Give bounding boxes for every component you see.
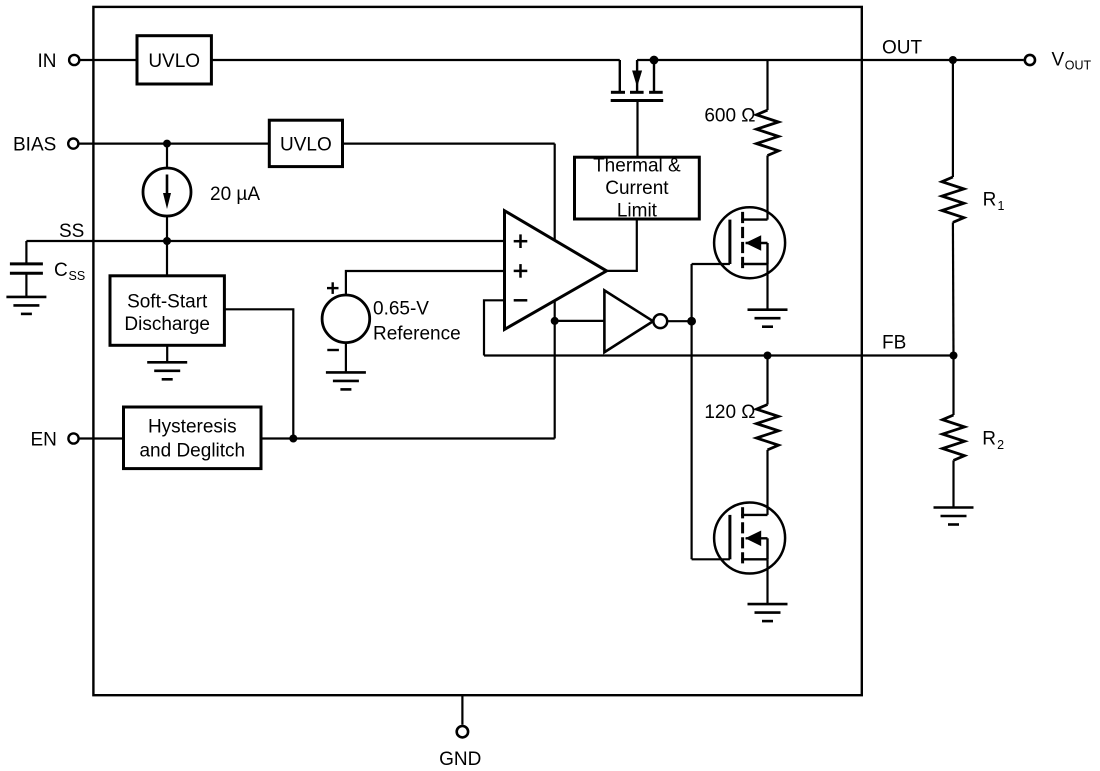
pin label VOUT xyxy=(1052,50,1092,73)
svg-text:FB: FB xyxy=(882,332,906,353)
current source I1 20uA xyxy=(143,144,191,241)
wire FB to 120 ohm resistor xyxy=(766,356,768,405)
wire UVLO U1 output to pass transistor drain xyxy=(211,59,619,61)
wire soft-start box to enable net xyxy=(224,309,293,438)
wire OUT rail xyxy=(637,59,1023,61)
resistor R1 xyxy=(942,177,964,222)
wire error amp inverting input to FB xyxy=(484,300,505,355)
svg-text:Thermal &: Thermal & xyxy=(593,156,681,177)
wire gate node vertical xyxy=(690,264,692,559)
node inverter output junction xyxy=(687,317,696,326)
svg-text:Soft-Start: Soft-Start xyxy=(127,292,208,313)
pin VOUT terminal circle xyxy=(1025,55,1035,65)
resistor 600 ohm xyxy=(757,110,779,155)
svg-text:Discharge: Discharge xyxy=(124,314,210,335)
ground under reference xyxy=(326,372,366,389)
ground under soft-start box xyxy=(147,362,187,379)
block Hysteresis and Deglitch xyxy=(124,407,262,469)
voltage reference source VREF 0.65V xyxy=(322,271,504,372)
wire IN pin to UVLO U1 xyxy=(79,59,137,61)
svg-text:GND: GND xyxy=(439,749,481,770)
svg-text:OUT: OUT xyxy=(882,37,923,58)
block Thermal & Current Limit xyxy=(575,156,700,222)
wire hysteresis output to enable net xyxy=(261,437,555,439)
block UVLO U1 (IN rail) xyxy=(137,36,211,84)
label R1 xyxy=(983,189,1005,213)
node FB to divider xyxy=(950,352,958,360)
resistor R2 xyxy=(943,415,965,460)
wire 600 ohm to discharge transistor Q2 drain xyxy=(766,156,768,220)
node BIAS junction xyxy=(163,140,171,148)
wire GND stub xyxy=(461,695,463,725)
inverter U4 input wire xyxy=(555,320,605,322)
wire BIAS pin to UVLO U2 xyxy=(78,143,269,145)
svg-text:120 Ω: 120 Ω xyxy=(704,402,755,423)
wire enable net vertical (runs behind error amp) xyxy=(554,144,556,439)
node pass transistor source to OUT xyxy=(650,56,659,65)
label R2 xyxy=(982,428,1004,452)
svg-text:C: C xyxy=(54,260,68,281)
wire R2 to ground xyxy=(952,460,954,507)
pass transistor Q1 gate lead xyxy=(636,101,638,158)
wire Q2 source to ground xyxy=(766,264,768,310)
wire 120 ohm to discharge transistor Q3 drain xyxy=(766,450,768,515)
ground under CSS xyxy=(6,297,46,314)
wire soft-start box to ground xyxy=(166,345,168,362)
ground under Q2 xyxy=(748,310,788,327)
pass transistor Q1 xyxy=(611,60,664,101)
wire Q3 source to ground xyxy=(766,559,768,604)
wire UVLO U2 output to enable net xyxy=(343,143,555,145)
node OUT divider junction xyxy=(949,56,957,64)
svg-text:BIAS: BIAS xyxy=(13,135,56,156)
node EN net junction xyxy=(289,435,297,443)
svg-text:Hysteresis: Hysteresis xyxy=(148,416,237,437)
pin IN terminal circle xyxy=(69,55,79,65)
wire Q3 gate to inverter node xyxy=(692,558,730,560)
inverter U4 xyxy=(604,290,667,352)
wire SS to external capacitor xyxy=(25,241,27,264)
node inverter input tap xyxy=(551,317,559,325)
svg-text:UVLO: UVLO xyxy=(148,51,200,72)
transistor Q2 (OUT discharge NMOS) xyxy=(714,207,785,278)
pin EN terminal circle xyxy=(68,433,78,443)
svg-text:Limit: Limit xyxy=(617,201,658,222)
svg-text:600 Ω: 600 Ω xyxy=(704,106,755,127)
capacitor CSS xyxy=(10,264,43,297)
wire FB rail xyxy=(484,354,954,356)
svg-text:V: V xyxy=(1052,50,1065,71)
svg-text:2: 2 xyxy=(997,438,1004,452)
svg-text:EN: EN xyxy=(31,429,57,450)
wire error amp output to thermal limit block xyxy=(607,219,637,271)
wire FB node to R2 xyxy=(952,356,954,416)
svg-text:and Deglitch: and Deglitch xyxy=(139,440,245,461)
ground under R2 xyxy=(934,508,974,525)
svg-text:OUT: OUT xyxy=(1065,59,1092,73)
resistor 120 ohm xyxy=(757,405,779,450)
svg-text:SS: SS xyxy=(59,221,84,242)
wire R1 to FB node xyxy=(952,222,955,355)
svg-text:20 µA: 20 µA xyxy=(210,184,260,205)
node SS junction xyxy=(163,237,171,245)
outer IC boundary box xyxy=(93,7,861,695)
transistor Q3 (FB discharge NMOS) xyxy=(714,503,785,574)
wire Q2 gate to inverter node xyxy=(692,263,730,265)
pin GND terminal circle xyxy=(457,726,468,737)
svg-text:SS: SS xyxy=(69,269,86,283)
op-amp error amplifier U3 xyxy=(505,211,607,330)
wire VOUT node to R1 xyxy=(952,60,954,177)
wire OUT to 600 ohm resistor xyxy=(766,60,768,110)
label 0.65-V Reference xyxy=(373,299,461,345)
wire inverter output to gate node xyxy=(667,320,691,322)
block Soft-Start Discharge xyxy=(110,276,224,346)
svg-text:Current: Current xyxy=(605,178,669,199)
svg-text:R: R xyxy=(982,428,996,449)
svg-text:UVLO: UVLO xyxy=(280,134,332,155)
pin BIAS terminal circle xyxy=(68,139,78,149)
svg-text:IN: IN xyxy=(38,51,57,72)
svg-text:0.65-V: 0.65-V xyxy=(373,299,429,320)
node FB to 120 ohm branch xyxy=(764,352,772,360)
wire soft-start discharge to SS node xyxy=(166,241,168,276)
svg-text:1: 1 xyxy=(998,199,1005,213)
wire EN pin to hysteresis block xyxy=(79,437,124,439)
ground under Q3 xyxy=(748,604,788,621)
svg-text:R: R xyxy=(983,189,997,210)
block UVLO U2 (BIAS rail) xyxy=(269,120,342,166)
wire SS rail to error amp + input xyxy=(26,240,504,242)
label CSS xyxy=(54,260,85,283)
svg-text:Reference: Reference xyxy=(373,323,461,344)
